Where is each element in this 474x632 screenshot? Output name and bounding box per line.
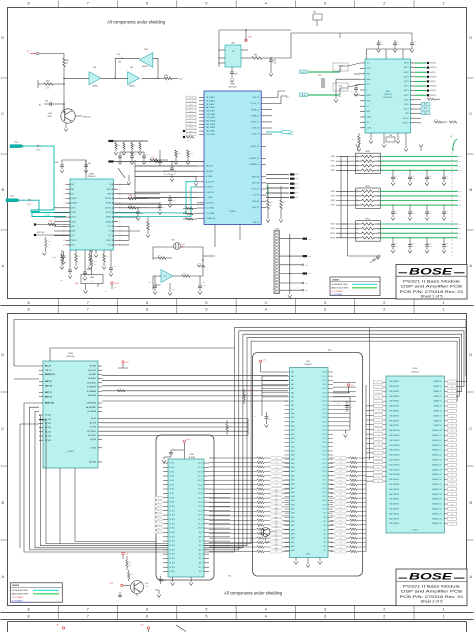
svg-text:C713: C713 (446, 211, 449, 213)
svg-text:U: U (367, 90, 368, 92)
capacitor C310 coupling (318, 75, 324, 88)
svg-text:R740: R740 (118, 388, 121, 390)
svg-text:BC817: BC817 (48, 116, 52, 118)
svg-text:B7_13: B7_13 (323, 496, 327, 498)
resistor R681 (434, 119, 457, 124)
BOSE logo sheet 2 (399, 572, 465, 583)
svg-text:B7_34: B7_34 (323, 409, 327, 411)
svg-text:C651: C651 (134, 154, 137, 156)
red label cluster below DAC (60, 280, 107, 293)
svg-text:BRSETRL_0U: BRSETRL_0U (45, 374, 54, 376)
U7000 left net labels upper (186, 96, 196, 136)
svg-text:R720: R720 (158, 255, 161, 257)
svg-text:C7040: C7040 (275, 228, 279, 230)
wire U7080 bottom descenders (60, 468, 156, 544)
U7000 right wires lower (266, 173, 299, 199)
svg-text:B: B (2, 188, 5, 192)
svg-text:C721: C721 (412, 243, 415, 245)
svg-text:294161-003: 294161-003 (66, 356, 74, 358)
capacitor C660 decoupling (55, 160, 64, 173)
svg-text:74X6_749: 74X6_749 (252, 183, 260, 185)
wire teal DIG_OUT (20, 199, 66, 216)
wire green vertical right of U7000 (267, 184, 269, 198)
svg-text:5: 5 (205, 607, 207, 611)
svg-text:C701: C701 (10, 196, 14, 198)
svg-text:B7_12: B7_12 (323, 500, 327, 502)
svg-text:B7_9: B7_9 (323, 513, 326, 515)
svg-text:B7_19: B7_19 (323, 471, 327, 473)
svg-text:U6800: U6800 (385, 91, 390, 93)
U7300 pin rows (163, 462, 209, 573)
svg-text:B: B (2, 501, 5, 505)
filter box FL601 (333, 83, 348, 91)
svg-text:R761: R761 (275, 551, 278, 553)
svg-text:R660: R660 (94, 261, 97, 263)
title block sheet 2 (396, 569, 467, 606)
svg-text:MUTEC: MUTEC (106, 217, 112, 219)
svg-text:7: 7 (87, 2, 89, 6)
svg-text:R782: R782 (339, 547, 342, 549)
svg-text:1000pF: 1000pF (429, 246, 433, 248)
resistor pack RP701 (356, 186, 381, 209)
svg-text:R655: R655 (117, 145, 120, 147)
svg-text:2: 2 (383, 615, 385, 619)
svg-text:B7_41: B7_41 (323, 380, 327, 382)
svg-text:C660: C660 (55, 162, 58, 164)
svg-text:5: 5 (205, 615, 207, 619)
svg-text:R753: R753 (275, 515, 278, 517)
svg-text:FILT+: FILT+ (108, 226, 112, 228)
svg-text:6: 6 (146, 615, 148, 619)
svg-text:20: 20 (119, 221, 121, 223)
wire analog right channel (green) (308, 88, 348, 95)
svg-text:OUT: OUT (459, 200, 462, 202)
svg-text:C650: C650 (122, 154, 125, 156)
svg-text:R779: R779 (339, 533, 342, 535)
ground arrows mid row (127, 175, 198, 186)
svg-text:1: 1 (443, 308, 445, 312)
wire green TX out (266, 131, 293, 136)
svg-text:B7_21: B7_21 (323, 463, 327, 465)
svg-text:OMCK: OMCK (367, 117, 371, 119)
title text sheet 2 (400, 584, 464, 603)
svg-text:6: 6 (146, 2, 148, 6)
svg-text:VREF: VREF (107, 193, 111, 195)
svg-text:B7_14: B7_14 (323, 492, 327, 494)
svg-text:1.0K: 1.0K (94, 264, 97, 266)
ground U740 bottom left (294, 558, 310, 568)
svg-text:R675: R675 (104, 291, 107, 293)
svg-text:1000pF: 1000pF (446, 178, 450, 180)
svg-text:B7_8: B7_8 (323, 517, 326, 519)
sheet 1 border frame (1, 1, 474, 306)
svg-text:OUT: OUT (459, 196, 462, 198)
svg-text:C7/04: C7/04 (337, 403, 341, 405)
capacitor C103 feedback junction (117, 54, 123, 64)
svg-text:D: D (1, 36, 4, 40)
svg-text:DSP and Amplifier PCB: DSP and Amplifier PCB (401, 285, 463, 289)
svg-text:R652: R652 (190, 153, 193, 155)
vertical tie wires left of resistor packs (341, 157, 378, 257)
svg-text:DSP and Amplifier PCB: DSP and Amplifier PCB (401, 590, 463, 594)
svg-text:R769: R769 (339, 489, 342, 491)
capacitor C740 (254, 412, 271, 427)
sheet 3 top border strip (1, 612, 474, 632)
net label AIN_L (300, 70, 308, 74)
svg-text:RXN: RXN (367, 73, 370, 75)
svg-text:R710: R710 (270, 202, 273, 204)
svg-text:OUT: OUT (459, 233, 462, 235)
svg-text:DGND: DGND (367, 127, 371, 129)
svg-text:FLG_6: FLG_6 (189, 114, 193, 116)
svg-text:7: 7 (87, 308, 89, 312)
svg-text:T/CLK1_TX: T/CLK1_TX (251, 122, 260, 124)
svg-text:+5V: +5V (56, 625, 59, 627)
U7000 right wires upper (266, 91, 289, 134)
svg-text:5: 5 (205, 308, 207, 312)
resistor R741 pull (238, 388, 252, 404)
svg-text:B7_3: B7_3 (323, 538, 326, 540)
svg-text:1000pF: 1000pF (429, 213, 433, 215)
svg-text:R700: R700 (184, 206, 187, 208)
svg-text:1000pF: 1000pF (446, 213, 450, 215)
wire green from right edge (450, 135, 457, 151)
svg-text:R751: R751 (131, 574, 134, 576)
svg-text:VOUT2: VOUT2 (331, 165, 336, 167)
svg-text:C711: C711 (412, 211, 415, 213)
ground arrow above RP700 (356, 145, 360, 152)
U6800 bottom grounds (369, 133, 408, 151)
svg-text:C702: C702 (429, 176, 432, 178)
svg-text:C661: C661 (88, 163, 91, 165)
transistor Q740 (258, 526, 275, 543)
svg-text:CMOUT: CMOUT (106, 240, 112, 242)
svg-text:1: 1 (443, 607, 445, 611)
capacitor C301 (269, 57, 277, 64)
capacitor C664 (136, 207, 143, 220)
svg-text:8: 8 (27, 607, 29, 611)
svg-text:OUT: OUT (459, 237, 462, 239)
svg-text:C722: C722 (172, 289, 175, 291)
svg-text:R681: R681 (435, 119, 438, 121)
U6600 left pin names (63, 183, 77, 246)
svg-text:R778: R778 (339, 529, 342, 531)
svg-text:OUT: OUT (459, 165, 462, 167)
svg-text:R743: R743 (275, 471, 278, 473)
svg-text:4: 4 (265, 615, 267, 619)
shield box around U740 (253, 353, 363, 577)
svg-text:B7_31: B7_31 (323, 421, 327, 423)
input wires RP701 (331, 191, 356, 207)
svg-text:U6700: U6700 (144, 49, 148, 51)
svg-text:3: 3 (324, 607, 326, 611)
capacitor C686 filt (350, 85, 360, 97)
svg-text:DIR0B_TX: DIR0B_TX (251, 115, 260, 117)
op-amp U102 feedback buffer (140, 49, 153, 68)
U7080 left pin names (39, 366, 54, 442)
resistor R720 feedback (153, 255, 172, 259)
svg-text:R101: R101 (66, 60, 70, 62)
svg-text:21065S: 21065S (229, 211, 236, 213)
svg-text:RP700: RP700 (366, 151, 370, 153)
wire bus top rail to DSP (50, 348, 235, 361)
svg-text:R765: R765 (339, 471, 342, 473)
op-amp U101B (128, 67, 140, 88)
svg-text:TCBL: TCBL (405, 113, 409, 115)
svg-text:C668: C668 (87, 269, 90, 271)
svg-text:VOUT0: VOUT0 (331, 156, 336, 158)
svg-text:B7_39: B7_39 (323, 388, 327, 390)
wires into U6800 left (348, 63, 360, 95)
svg-text:0.01UF: 0.01UF (202, 285, 206, 287)
svg-text:23: 23 (119, 207, 121, 209)
svg-text:FLG_2: FLG_2 (189, 127, 193, 129)
svg-text:B7_20: B7_20 (323, 467, 327, 469)
svg-text:B7_7: B7_7 (323, 521, 326, 523)
wire analog left channel (green) (308, 66, 348, 72)
svg-text:B7_17: B7_17 (323, 480, 327, 482)
wire reg output (271, 33, 340, 58)
svg-text:C723: C723 (446, 243, 449, 245)
svg-text:8: 8 (27, 301, 29, 305)
svg-text:21065: 21065 (306, 554, 310, 556)
wire osc out to U7000 (203, 255, 215, 257)
svg-text:NET3: NET3 (308, 273, 311, 275)
svg-text:B7_29: B7_29 (323, 430, 327, 432)
crystal Y680 (386, 135, 395, 142)
power +15V Q750 circuit (122, 552, 129, 559)
svg-text:R774: R774 (339, 511, 342, 513)
svg-text:Y680: Y680 (389, 135, 392, 137)
svg-text:C672: C672 (113, 266, 116, 268)
ground AGND U6800 (334, 79, 360, 102)
svg-text:10K: 10K (129, 565, 131, 567)
svg-text:Sheet 2 of 5: Sheet 2 of 5 (421, 600, 443, 604)
svg-text:B6-10: B6-10 (328, 349, 332, 351)
svg-text:+3.3V: +3.3V (109, 583, 113, 585)
resistor pack RP700 (356, 151, 381, 174)
svg-text:1: 1 (443, 301, 445, 305)
svg-text:B7_35: B7_35 (323, 405, 327, 407)
connector CN301 (313, 12, 322, 27)
svg-text:Q100: Q100 (48, 113, 52, 115)
svg-text:R684: R684 (352, 139, 355, 141)
svg-text:R755: R755 (275, 524, 278, 526)
svg-text:D: D (469, 36, 472, 40)
svg-text:B7_2: B7_2 (323, 542, 326, 544)
ground C730 (162, 457, 171, 463)
svg-text:A: A (2, 575, 5, 579)
transistor Q180 near title (370, 255, 380, 263)
svg-text:RXP0: RXP0 (367, 68, 371, 70)
svg-text:R756: R756 (275, 529, 278, 531)
ground C301 (269, 61, 273, 76)
svg-text:SIG1_TX: SIG1_TX (252, 97, 260, 99)
capacitor C671 (60, 250, 72, 278)
svg-text:R758: R758 (275, 538, 278, 540)
svg-text:Q740: Q740 (258, 526, 261, 528)
svg-text:1000pF: 1000pF (412, 213, 416, 215)
svg-text:B7_25: B7_25 (323, 446, 327, 448)
svg-text:R777: R777 (339, 524, 342, 526)
U7500 right pin boxes (444, 380, 456, 525)
net pads far left (34, 221, 70, 236)
svg-text:B7_23: B7_23 (323, 455, 327, 457)
svg-text:S/PDIF RCVR: S/PDIF RCVR (383, 97, 392, 99)
ground U740 right (344, 430, 348, 437)
svg-text:B7_15: B7_15 (323, 488, 327, 490)
op-amp U101A (89, 67, 101, 88)
svg-text:VOUT10: VOUT10 (330, 233, 335, 235)
svg-text:TX1: TX1 (286, 97, 289, 99)
ground below resistor packs (376, 257, 380, 260)
U740 right support components (333, 384, 354, 430)
resistor R653 near U7000 (183, 128, 194, 133)
svg-text:C686: C686 (350, 91, 353, 93)
U7080 lower right wires (102, 419, 248, 436)
svg-text:C: C (469, 112, 472, 116)
svg-text:R746: R746 (275, 484, 278, 486)
wire osc in (153, 275, 161, 277)
bus loop nest full routing (24, 327, 466, 552)
svg-text:B7_33: B7_33 (323, 413, 327, 415)
svg-text:+3.3V: +3.3V (263, 360, 267, 362)
filter box FL600 (333, 63, 348, 71)
svg-text:B7_5: B7_5 (323, 529, 326, 531)
ground CN700 (288, 293, 292, 298)
svg-text:264191-003: 264191-003 (228, 87, 236, 89)
svg-text:C720: C720 (148, 282, 151, 284)
svg-text:B7_38: B7_38 (323, 392, 327, 394)
svg-text:5: 5 (205, 301, 207, 305)
svg-text:VOUT7: VOUT7 (331, 205, 336, 207)
resistor R684 (352, 133, 361, 151)
svg-text:R701: R701 (184, 211, 187, 213)
svg-text:4.7K: 4.7K (46, 88, 49, 90)
svg-text:10K: 10K (66, 63, 69, 65)
svg-text:73X_738: 73X_738 (253, 195, 260, 197)
svg-text:R650: R650 (151, 157, 154, 159)
svg-text:+15V: +15V (140, 625, 144, 627)
svg-text:C682: C682 (414, 41, 417, 43)
svg-text:R763: R763 (339, 462, 342, 464)
svg-text:R748: R748 (275, 493, 278, 495)
capacitor C720 (148, 276, 157, 294)
U7000 left pin names upper (199, 96, 215, 136)
svg-text:5: 5 (205, 2, 207, 6)
svg-text:OUT: OUT (459, 191, 462, 193)
svg-text:B7_28: B7_28 (323, 434, 327, 436)
U740 pin rows (285, 371, 334, 552)
power terminal Q750 base (109, 583, 130, 587)
U6600 right pin wires (118, 185, 140, 245)
svg-text:3: 3 (324, 2, 326, 6)
ground U6600 bottom (94, 250, 98, 257)
svg-text:TX_4: TX_4 (296, 174, 299, 176)
wire op-amp input feed (64, 77, 89, 79)
svg-text:All components under shielding: All components under shielding (224, 591, 283, 596)
svg-text:MUTE: MUTE (72, 240, 76, 242)
svg-text:R102: R102 (46, 81, 50, 83)
svg-text:R722: R722 (198, 263, 201, 265)
svg-text:B7_18: B7_18 (323, 475, 327, 477)
svg-text:SD_1: SD_1 (424, 108, 428, 110)
svg-text:R770: R770 (339, 493, 342, 495)
capacitor C668 (83, 250, 90, 280)
svg-text:B7_37: B7_37 (323, 397, 327, 399)
svg-text:POWER1_24: POWER1_24 (249, 158, 259, 160)
svg-text:PCB P/N: 279318 Rev. 01: PCB P/N: 279318 Rev. 01 (400, 290, 464, 294)
svg-text:GE_/BD0/LK1: GE_/BD0/LK1 (87, 382, 96, 384)
resistor R105 output (158, 75, 182, 84)
U740 left support components (260, 360, 285, 417)
svg-text:8: 8 (27, 2, 29, 6)
wires U7300 to left resistor stack (209, 458, 254, 552)
U7500 left pin boxes (374, 381, 387, 483)
svg-text:4: 4 (265, 301, 267, 305)
capacitor C730 (169, 449, 184, 457)
wire teal pair to DAC (31, 210, 70, 217)
resistor R711 pulldown (279, 186, 286, 222)
U7080 right bus wires to DSP (102, 376, 288, 401)
svg-text:2: 2 (383, 301, 385, 305)
U7500 internal net rows (389, 380, 442, 525)
svg-text:R759: R759 (275, 542, 278, 544)
svg-text:FB600: FB600 (90, 277, 94, 279)
svg-text:C703: C703 (446, 176, 449, 178)
svg-text:VOUT11: VOUT11 (330, 237, 335, 239)
U7300 bottom grounds (171, 577, 194, 585)
svg-text:C70_X: C70_X (27, 204, 31, 206)
resistor cluster mid top (108, 140, 148, 155)
svg-text:OUT: OUT (459, 228, 462, 230)
svg-text:2: 2 (383, 308, 385, 312)
svg-text:U300: U300 (231, 43, 235, 45)
resistor R650 (150, 157, 168, 161)
svg-text:C: C (1, 112, 4, 116)
op-amp U720 oscillator (155, 270, 173, 287)
svg-text:+15V: +15V (125, 553, 128, 555)
svg-text:D: D (469, 353, 472, 357)
svg-text:0.1UF: 0.1UF (380, 43, 383, 45)
net label AIN_R (300, 93, 308, 97)
svg-text:3: 3 (324, 308, 326, 312)
capacitor C721 (198, 276, 206, 294)
capacitor row below RP700 (391, 170, 449, 186)
svg-text:B7_43: B7_43 (323, 372, 327, 374)
svg-text:R742: R742 (229, 426, 232, 428)
bus verticals right of shield (366, 327, 369, 552)
svg-text:FLG_0: FLG_0 (189, 134, 193, 136)
svg-text:+3.3V: +3.3V (350, 385, 354, 387)
svg-text:R651: R651 (178, 153, 181, 155)
svg-text:R772: R772 (339, 502, 342, 504)
DSP U7080 (43, 353, 98, 468)
svg-text:OUT: OUT (459, 170, 462, 172)
svg-text:OLRCK: OLRCK (404, 99, 409, 101)
svg-text:RERR: RERR (367, 95, 371, 97)
svg-text:47K: 47K (270, 205, 272, 207)
svg-text:C301: C301 (273, 60, 277, 62)
series resistor stack left of U740 (254, 457, 290, 554)
capacitor C672 (109, 250, 116, 276)
svg-text:3: 3 (324, 301, 326, 305)
wires CN700 to net labels (280, 234, 312, 293)
svg-text:B7_26: B7_26 (323, 442, 327, 444)
svg-text:FL601: FL601 (339, 86, 343, 88)
svg-text:C741: C741 (349, 407, 352, 409)
svg-text:2876-B-002: 2876-B-002 (88, 176, 96, 178)
